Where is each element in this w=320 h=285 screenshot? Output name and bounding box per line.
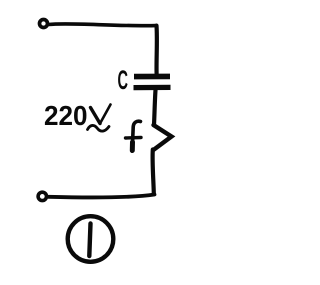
label C (capacitor) [118, 65, 129, 95]
wire capacitor to spark gap [154, 90, 156, 125]
wire top horizontal [49, 24, 157, 26]
nonlinear element f (spark-gap kink) [154, 125, 172, 150]
figure number 1 (circled) [68, 216, 114, 262]
svg-text:220: 220 [44, 100, 88, 131]
label 220 [44, 100, 88, 131]
wire bottom horizontal [49, 195, 155, 198]
capacitor C plate top [134, 74, 170, 80]
terminal (bottom left) [38, 192, 46, 200]
label f (nonlinear element) [126, 121, 142, 151]
wire lower vertical [153, 150, 154, 194]
label V with AC tilde [88, 105, 111, 132]
terminal (top left) [40, 20, 48, 28]
capacitor C plate bottom [134, 85, 171, 90]
wire right vertical upper [154, 26, 159, 74]
svg-text:C: C [118, 65, 129, 95]
